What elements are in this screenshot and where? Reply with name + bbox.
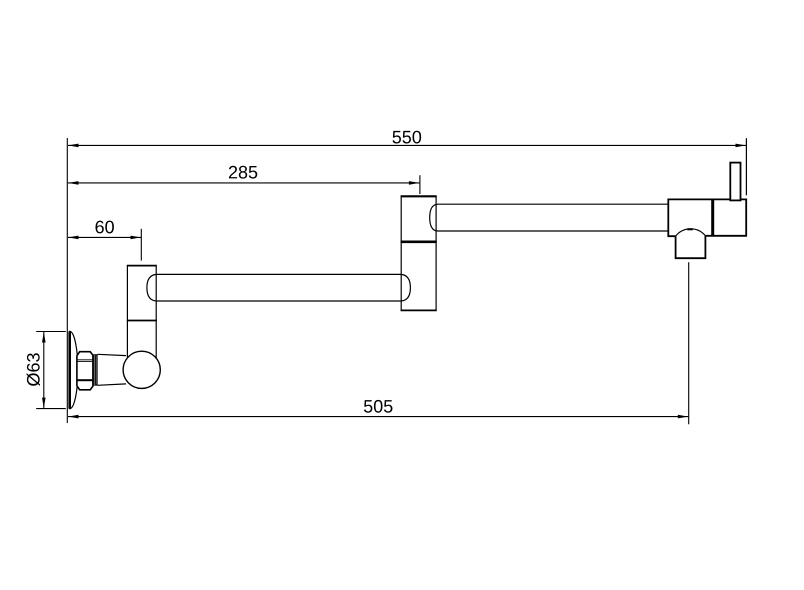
supply pipe taper top line bbox=[98, 354, 127, 355]
valve body divider (thick) bbox=[711, 199, 714, 235]
label 60 bbox=[96, 221, 114, 234]
valve body outline with spout dome bbox=[668, 199, 746, 236]
wall flange face (thick) bbox=[68, 331, 71, 408]
wire: extension line right of 285 bbox=[419, 175, 421, 194]
joint post 1 divider bbox=[127, 320, 157, 322]
wire: tick bottom of D63 bbox=[36, 408, 66, 410]
arrowhead 60 left bbox=[68, 236, 79, 240]
hex mounting nut bbox=[77, 352, 93, 390]
wire: dimension line 550 bbox=[68, 144, 746, 146]
wire: extension line right of 505 (spout centreline) bbox=[688, 262, 690, 424]
arrowhead 285 left bbox=[68, 181, 79, 185]
thread section (dark) bbox=[93, 354, 97, 386]
wire: extension line right of 550 bbox=[745, 138, 747, 195]
arrowhead 285 right bbox=[409, 181, 420, 185]
joint post 2 bottom edge bbox=[401, 309, 437, 311]
arrowhead 60 right bbox=[131, 236, 142, 240]
joint post 1 left edge bbox=[126, 266, 128, 369]
nut facet line lower (thick) bbox=[77, 379, 93, 381]
spout dome peak dash bbox=[687, 228, 693, 230]
arrowhead D63 up bbox=[42, 332, 46, 343]
wire: left extension line (wall face datum) bbox=[66, 138, 68, 423]
label D63 (rotated) bbox=[27, 353, 40, 386]
wire: extension line right of 60 bbox=[140, 229, 142, 261]
label 550 bbox=[393, 131, 422, 144]
joint post 1 top edge bbox=[127, 265, 157, 267]
arrowhead 505 left bbox=[68, 415, 79, 419]
wire: dimension line D63 vertical bbox=[43, 332, 45, 409]
nut facet line upper (double) bbox=[77, 359, 93, 361]
joint post 2 right edge bbox=[435, 196, 437, 310]
articulating arm 2 (upper, to valve body) bbox=[430, 204, 669, 231]
articulating arm 1 (lower) bbox=[147, 274, 411, 301]
joint post 2 divider (thick) bbox=[401, 241, 437, 244]
label 505 bbox=[364, 400, 393, 413]
wire: dimension line 285 bbox=[68, 182, 419, 184]
joint post 2 top edge bbox=[401, 195, 437, 197]
joint post 2 left edge bbox=[400, 196, 402, 310]
arrowhead D63 down bbox=[42, 398, 46, 409]
ball elbow joint bbox=[123, 351, 160, 388]
arrowhead 550 left bbox=[68, 144, 79, 148]
label 285 bbox=[229, 166, 257, 179]
wall flange escutcheon (dome profile) bbox=[70, 331, 78, 408]
wire: dimension line 505 bbox=[68, 416, 688, 418]
lever handle bbox=[730, 163, 740, 201]
spout outlet bbox=[676, 236, 706, 258]
arrowhead 550 right bbox=[736, 144, 747, 148]
wire: dimension line 60 bbox=[68, 236, 141, 238]
arrowhead 505 right bbox=[678, 415, 689, 419]
spout dome arc bbox=[676, 229, 706, 236]
supply pipe taper bottom line bbox=[98, 384, 127, 385]
joint post 1 right edge bbox=[155, 266, 157, 369]
wire: tick top of D63 bbox=[36, 331, 66, 333]
